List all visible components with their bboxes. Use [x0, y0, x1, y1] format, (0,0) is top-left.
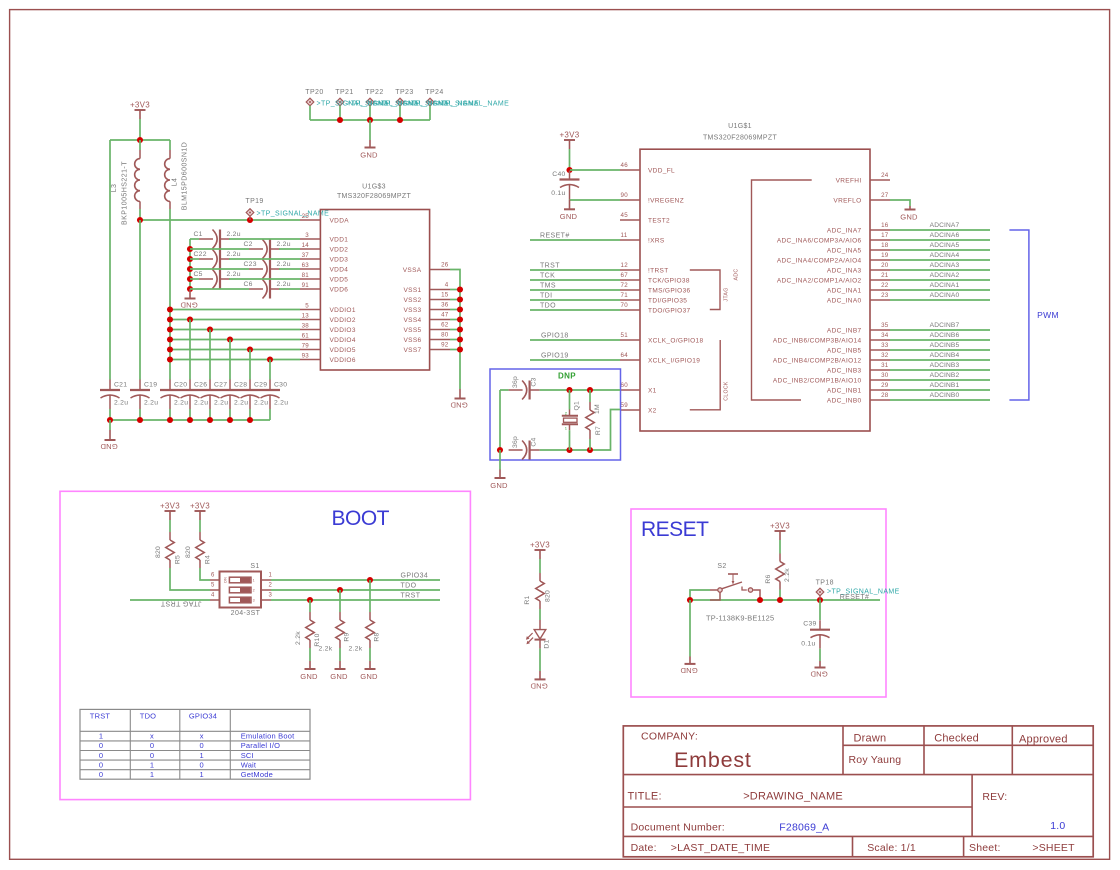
junction ground rail x=170: [167, 417, 173, 423]
svg-text:Scale: 1/1: Scale: 1/1: [867, 842, 916, 854]
ground test points: [360, 140, 378, 159]
wire TP21 stem: [339, 106, 341, 120]
junction ground rail x=210: [207, 417, 213, 423]
svg-text:>TP_SIGNAL_NAME: >TP_SIGNAL_NAME: [437, 100, 510, 107]
wire RESET# net: [530, 239, 620, 241]
IC U1G$3 outline: [320, 210, 429, 371]
svg-text:VSS3: VSS3: [403, 307, 421, 314]
resistor R5: [166, 532, 174, 568]
table BOOT modes: [80, 709, 310, 779]
wire R10 bottom: [309, 648, 311, 661]
label C6 name/value: [244, 281, 291, 288]
svg-text:+3V3: +3V3: [530, 541, 550, 550]
pin 70 TDO/GPIO37 of U1G$1: [620, 302, 691, 314]
junction C40/VDD_FL: [566, 167, 572, 173]
wire VDD6 row: [190, 288, 249, 290]
svg-text:TP18: TP18: [816, 580, 834, 587]
svg-text:GND: GND: [490, 481, 508, 490]
pin 34 ADC_INB6/COMP3B/AIO14 of U1G$1: [773, 332, 890, 344]
capacitor C5: [199, 270, 230, 289]
svg-text:GND: GND: [530, 682, 548, 691]
junction cap bus y=259: [187, 256, 193, 262]
label C20 name/value: [174, 382, 188, 407]
wire VDDA rail: [140, 219, 300, 221]
wire TRST net: [271, 599, 440, 601]
svg-text:C4: C4: [531, 437, 538, 446]
wire C19 to ground rail: [139, 409, 141, 420]
label C3 name/value: [512, 376, 538, 388]
svg-text:ADC_INA0: ADC_INA0: [827, 297, 862, 304]
wire VREFLO to ground: [890, 200, 910, 206]
svg-text:ADCINA5: ADCINA5: [930, 242, 960, 249]
svg-text:3: 3: [305, 232, 309, 239]
wire VDD2 row: [190, 248, 249, 250]
svg-text:GND: GND: [450, 401, 468, 410]
wire ADCINB5: [890, 349, 990, 351]
svg-text:x: x: [150, 732, 154, 741]
svg-text:36: 36: [441, 302, 449, 309]
svg-text:34: 34: [881, 332, 889, 339]
svg-text:VDD6: VDD6: [330, 286, 349, 293]
svg-text:TCK: TCK: [540, 273, 555, 280]
svg-text:TP20: TP20: [305, 89, 323, 96]
svg-text:ADC_INA2/COMP1A/AIO2: ADC_INA2/COMP1A/AIO2: [777, 277, 862, 284]
svg-text:GND: GND: [330, 672, 348, 681]
junction VDDIO4 dropper: [227, 336, 233, 342]
svg-text:2.2u: 2.2u: [227, 271, 241, 278]
pin 33 ADC_INB5 of U1G$1: [827, 342, 890, 354]
wire RESET# node: [690, 599, 880, 601]
pin 45 TEST2 of U1G$1: [620, 212, 670, 224]
pin 20 ADC_INA3 of U1G$1: [827, 262, 890, 274]
wire R8 top: [369, 580, 371, 612]
junction TP23: [397, 117, 403, 123]
svg-text:R7: R7: [595, 426, 602, 435]
svg-text:GND: GND: [360, 150, 378, 159]
wire test point bus: [310, 119, 430, 121]
svg-text:C2: C2: [244, 241, 253, 248]
LED D1: [526, 620, 551, 649]
wire TP bus to GND: [369, 120, 371, 140]
junction cap bus y=269: [187, 266, 193, 272]
ground C40: [560, 200, 578, 221]
svg-text:F28069_A: F28069_A: [779, 822, 829, 834]
svg-text:TDO: TDO: [540, 303, 556, 310]
svg-text:TRST: TRST: [401, 593, 421, 600]
wire C39 to GND: [819, 649, 821, 661]
pin 12 !TRST of U1G$1: [620, 262, 669, 274]
ground R10: [300, 661, 318, 681]
svg-text:TDO: TDO: [140, 711, 156, 720]
svg-text:VSS1: VSS1: [403, 287, 421, 294]
wire VDDIO4 dropper: [229, 340, 231, 380]
svg-text:63: 63: [302, 262, 310, 269]
svg-text:0: 0: [200, 741, 204, 750]
svg-text:18: 18: [881, 242, 889, 249]
svg-text:+3V3: +3V3: [770, 522, 790, 531]
svg-text:TMS/GPIO36: TMS/GPIO36: [648, 287, 691, 294]
wire +3V3 stem: [139, 119, 141, 140]
svg-text:GND: GND: [900, 212, 918, 221]
svg-text:GPIO18: GPIO18: [541, 333, 569, 340]
label C22 name/value: [194, 251, 241, 258]
svg-text:Date:: Date:: [631, 842, 657, 854]
wire L4 top: [169, 140, 171, 150]
svg-text:31: 31: [881, 362, 889, 369]
pin 25 VDDA of U1G$3: [300, 213, 349, 225]
wire +3V3 to R6: [779, 540, 781, 554]
junction cap bus y=249: [187, 246, 193, 252]
test point TP19: [245, 198, 263, 205]
junction TP22: [367, 117, 373, 123]
svg-text:0: 0: [200, 760, 204, 769]
svg-text:TCK/GPIO38: TCK/GPIO38: [648, 277, 690, 284]
wire VDDIO6 dropper: [269, 360, 271, 380]
svg-text:VDD3: VDD3: [330, 256, 349, 263]
junction VDDIO5 dropper: [247, 346, 253, 352]
junction cap bus y=289: [187, 286, 193, 292]
svg-text:35: 35: [881, 322, 889, 329]
svg-text:204-3ST: 204-3ST: [231, 610, 261, 617]
wire TP24 stem: [429, 106, 431, 120]
crystal Q1: [562, 390, 581, 450]
label R4 name/value: [185, 546, 212, 564]
wire +3V3 to R4: [199, 520, 201, 532]
svg-text:+3V3: +3V3: [160, 502, 180, 511]
svg-text:VDDA: VDDA: [330, 217, 350, 224]
svg-text:VDDIO6: VDDIO6: [330, 357, 356, 364]
label C40 name/value: [551, 171, 565, 197]
svg-text:19: 19: [881, 252, 889, 259]
svg-text:JTAG: JTAG: [724, 287, 730, 301]
label R9 name/value: [319, 632, 351, 652]
wire R7 top: [589, 390, 591, 402]
svg-text:TITLE:: TITLE:: [628, 791, 662, 803]
svg-text:4: 4: [445, 282, 449, 289]
junction ground rail x=110: [107, 417, 113, 423]
label C28 name/value: [234, 382, 248, 407]
svg-text:0: 0: [150, 751, 154, 760]
junction L3/VDDA: [137, 217, 143, 223]
svg-text:C39: C39: [803, 621, 816, 628]
junction S2 left: [687, 597, 693, 603]
ground VREFLO: [900, 206, 918, 221]
wire TP20 stem: [309, 106, 311, 120]
wire ADCINA4: [890, 259, 990, 261]
wire L3 top: [139, 140, 141, 150]
junction ground rail x=190: [187, 417, 193, 423]
junction ground rail x=250: [247, 417, 253, 423]
wire ADCINA5: [890, 249, 990, 251]
capacitor C21: [100, 380, 120, 410]
svg-text:TEST2: TEST2: [648, 217, 670, 224]
label C1 name/value: [194, 231, 241, 238]
svg-text:Approved: Approved: [1019, 734, 1068, 746]
svg-text:51: 51: [621, 332, 629, 339]
+3V3 supply top-left: [130, 101, 150, 119]
svg-text:ADC_INA5: ADC_INA5: [827, 247, 862, 254]
svg-text:TDO/GPIO37: TDO/GPIO37: [648, 307, 691, 314]
pin 27 VREFLO of U1G$1: [833, 192, 890, 204]
svg-text:VDDIO4: VDDIO4: [330, 337, 356, 344]
test point TP23 diamond: [396, 98, 404, 106]
wire VDDIO6 row: [170, 359, 300, 361]
wire R1 to D1: [539, 609, 541, 620]
svg-text:90: 90: [621, 192, 629, 199]
svg-text:ADC_INB4/COMP2B/AIO12: ADC_INB4/COMP2B/AIO12: [773, 357, 862, 364]
capacitor C23: [249, 260, 280, 279]
pin 24 VREFHI of U1G$1: [836, 172, 890, 184]
svg-text:XCLK_I/GPIO19: XCLK_I/GPIO19: [648, 357, 700, 364]
junction TP21: [337, 117, 343, 123]
wire VDDIO5 row: [170, 349, 300, 351]
pin 22 ADC_INA1 of U1G$1: [827, 282, 890, 294]
resistor R10: [306, 612, 314, 648]
wire to C39: [819, 600, 821, 620]
svg-text:ADCINB6: ADCINB6: [930, 332, 960, 339]
ground R9: [330, 661, 348, 681]
wire VDD3 row: [190, 258, 199, 260]
pin 15 VSS2 of U1G$3: [403, 292, 450, 304]
bracket PWM: [1009, 230, 1058, 400]
svg-text:ADC_INA3: ADC_INA3: [827, 267, 862, 274]
wire ADCINA1: [890, 289, 990, 291]
svg-text:2.2u: 2.2u: [234, 400, 248, 407]
wire R9 bottom: [339, 648, 341, 661]
pin 4 VSS1 of U1G$3: [403, 282, 450, 294]
svg-text:ADC_INA1: ADC_INA1: [827, 287, 862, 294]
wire X1 row: [540, 389, 620, 391]
resistor R9: [336, 612, 344, 648]
svg-text:TDO: TDO: [401, 583, 417, 590]
wire R5 to switch pin 5: [170, 568, 210, 590]
junction GPIO34/R8: [367, 577, 373, 583]
svg-text:CLOCK: CLOCK: [724, 381, 730, 401]
ground crystal: [490, 470, 508, 490]
junction VSS bus y=349.5: [457, 346, 463, 352]
pin 16 ADC_INA7 of U1G$1: [827, 222, 890, 234]
switch S2: [710, 563, 753, 592]
svg-text:15: 15: [441, 292, 449, 299]
svg-text:ADCINA1: ADCINA1: [930, 282, 960, 289]
svg-text:93: 93: [302, 352, 310, 359]
wire TDO net: [530, 309, 620, 311]
junction VDDIO bus y=339.5: [167, 336, 173, 342]
svg-text:2.2u: 2.2u: [227, 231, 241, 238]
svg-text:>TP_SIGNAL_NAME: >TP_SIGNAL_NAME: [257, 211, 330, 218]
svg-text:67: 67: [621, 272, 629, 279]
pin 47 VSS4 of U1G$3: [403, 312, 450, 324]
wire R4 to switch pin 6: [200, 568, 210, 580]
svg-text:24: 24: [881, 172, 889, 179]
wire C28 to ground rail: [229, 409, 231, 420]
svg-text:45: 45: [621, 212, 629, 219]
svg-text:GPIO34: GPIO34: [401, 573, 429, 580]
capacitor C4: [509, 441, 540, 460]
svg-text:VDDIO3: VDDIO3: [330, 327, 356, 334]
svg-text:2: 2: [253, 588, 255, 592]
svg-text:ADC_INB2/COMP1B/AIO10: ADC_INB2/COMP1B/AIO10: [773, 377, 862, 384]
svg-text:92: 92: [441, 342, 449, 349]
svg-text:2.2u: 2.2u: [277, 281, 291, 288]
svg-text:TRST: TRST: [540, 263, 560, 270]
svg-text:60: 60: [621, 382, 629, 389]
svg-text:0.1u: 0.1u: [551, 190, 565, 197]
test point TP24 diamond: [426, 98, 434, 106]
+3V3 supply C40: [559, 131, 579, 149]
svg-text:TDI: TDI: [540, 293, 552, 300]
wire GPIO34 net: [271, 579, 440, 581]
svg-text:ADC: ADC: [734, 269, 740, 281]
wire VSS2 to bus: [450, 299, 460, 301]
svg-text:ADCINB1: ADCINB1: [930, 382, 960, 389]
svg-text:ADC_INB0: ADC_INB0: [827, 397, 862, 404]
svg-text:C40: C40: [552, 171, 565, 178]
wire VDDIO2 row: [170, 319, 300, 321]
svg-text:C22: C22: [194, 251, 207, 258]
bracket ADC group: [734, 180, 812, 400]
wire VDDIO4 row: [170, 339, 300, 341]
junction VDDIO bus y=319.5: [167, 316, 173, 322]
test point TP22 diamond: [366, 98, 374, 106]
svg-text:0: 0: [99, 741, 103, 750]
svg-text:25: 25: [302, 213, 310, 220]
svg-text:TDI/GPIO35: TDI/GPIO35: [648, 297, 687, 304]
+3V3 supply R5: [160, 502, 180, 520]
svg-text:RESET: RESET: [641, 518, 709, 541]
svg-text:Checked: Checked: [934, 733, 979, 745]
svg-text:SCI: SCI: [241, 751, 254, 760]
svg-text:VDD2: VDD2: [330, 246, 349, 253]
svg-text:22: 22: [881, 282, 889, 289]
junction VDDIO bus y=309.5: [167, 306, 173, 312]
svg-text:6: 6: [211, 573, 215, 579]
wire bottom ground rail: [110, 419, 270, 421]
svg-text:ADC_INB1: ADC_INB1: [827, 387, 862, 394]
capacitor C6: [249, 280, 280, 299]
ground S2: [680, 657, 698, 676]
svg-text:VREFHI: VREFHI: [836, 177, 862, 184]
svg-text:S2: S2: [717, 563, 726, 570]
wire L4 bottom / VDDIO bus: [169, 209, 171, 380]
wire C20 to ground rail: [169, 409, 171, 420]
svg-text:XCLK_O/GPIO18: XCLK_O/GPIO18: [648, 337, 704, 344]
wire VSS5 to bus: [450, 329, 460, 331]
bracket CLOCK group: [690, 340, 730, 410]
inductor L4: [165, 150, 170, 209]
svg-text:27: 27: [881, 192, 889, 199]
svg-text:C29: C29: [254, 382, 267, 389]
box DNP region: [490, 369, 621, 460]
svg-text:C5: C5: [194, 271, 203, 278]
wire X1 left / ground leg: [500, 390, 509, 450]
wire TP23 stem: [399, 106, 401, 120]
switch S1: [210, 572, 273, 608]
svg-text:ADCINB5: ADCINB5: [930, 342, 960, 349]
pin 11 !XRS of U1G$1: [620, 232, 665, 244]
svg-text:36p: 36p: [512, 376, 519, 388]
pin 37 VDD3 of U1G$3: [300, 252, 348, 264]
wire D1 to GND: [539, 649, 541, 671]
svg-text:72: 72: [621, 282, 629, 289]
svg-text:GND: GND: [810, 670, 828, 679]
svg-text:VDD1: VDD1: [330, 236, 349, 243]
resistor R1: [536, 573, 544, 609]
wire TCK net: [530, 279, 620, 281]
svg-text:U1G$3: U1G$3: [362, 184, 386, 191]
wire crystal ground stem: [499, 450, 501, 470]
junction VDDIO3 dropper: [207, 326, 213, 332]
svg-text:5: 5: [211, 583, 215, 589]
svg-text:>LAST_DATE_TIME: >LAST_DATE_TIME: [671, 842, 770, 854]
junction VDDIO bus y=349.5: [167, 346, 173, 352]
junction VDDIO6 dropper: [267, 356, 273, 362]
svg-text:3: 3: [253, 598, 255, 602]
svg-text:X2: X2: [648, 407, 657, 414]
svg-text:ADCINB4: ADCINB4: [930, 352, 960, 359]
svg-text:14: 14: [302, 242, 310, 249]
wire VDDIO2 dropper: [189, 320, 191, 380]
junction VDDIO2 dropper: [187, 316, 193, 322]
svg-text:2.2u: 2.2u: [214, 400, 228, 407]
junction X1/R7: [587, 387, 593, 393]
capacitor C28: [220, 380, 240, 410]
wire R8 bottom: [369, 648, 371, 661]
wire VSS7 to bus: [450, 349, 460, 351]
svg-text:2.2u: 2.2u: [254, 400, 268, 407]
svg-text:ADCINA2: ADCINA2: [930, 272, 960, 279]
svg-text:VDDIO5: VDDIO5: [330, 347, 356, 354]
test point TP21 diamond: [336, 98, 344, 106]
junction VSS bus y=289.5: [457, 286, 463, 292]
junction TDO/R9: [337, 587, 343, 593]
wire VSS4 to bus: [450, 319, 460, 321]
pin 51 XCLK_O/GPIO18 of U1G$1: [620, 332, 704, 344]
svg-text:59: 59: [621, 402, 629, 409]
svg-text:ADC_INB5: ADC_INB5: [827, 347, 862, 354]
pin 18 ADC_INA5 of U1G$1: [827, 242, 890, 254]
wire GPIO19 net: [530, 359, 620, 361]
svg-text:1.0: 1.0: [1050, 820, 1065, 832]
svg-text:36p: 36p: [512, 436, 519, 448]
svg-text:C23: C23: [244, 261, 257, 268]
svg-text:79: 79: [302, 342, 310, 349]
svg-text:0: 0: [99, 751, 103, 760]
junction VSS bus y=299.5: [457, 296, 463, 302]
svg-text:TRST: TRST: [90, 711, 111, 720]
ground VDD cap bus: [180, 289, 198, 310]
resistor R8: [366, 612, 374, 648]
junction TRST/R10: [307, 597, 313, 603]
svg-text:C28: C28: [234, 382, 247, 389]
svg-text:C19: C19: [144, 382, 157, 389]
capacitor C39: [810, 620, 830, 649]
pin 79 VDDIO5 of U1G$3: [300, 342, 356, 354]
resistor R6: [776, 554, 784, 590]
svg-text:Wait: Wait: [241, 760, 257, 769]
svg-text:1: 1: [253, 578, 255, 582]
wire R9 top: [339, 590, 341, 612]
pin 14 VDD2 of U1G$3: [300, 242, 348, 254]
wire R10 top: [309, 600, 311, 612]
svg-text:Sheet:: Sheet:: [969, 842, 1001, 854]
wire VDD5 row: [190, 278, 199, 280]
svg-text:TP24: TP24: [425, 89, 443, 96]
svg-text:ADC_INB3: ADC_INB3: [827, 367, 862, 374]
capacitor C19: [130, 380, 150, 410]
svg-text:S1: S1: [250, 563, 259, 570]
svg-text:GND: GND: [100, 442, 118, 451]
